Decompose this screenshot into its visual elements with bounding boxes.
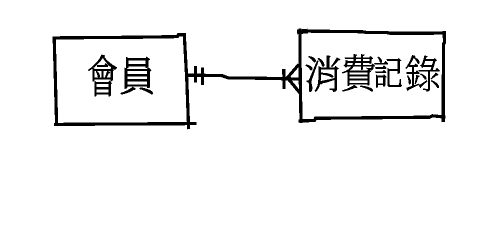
crow's foot lower prong (many)	[287, 78, 300, 93]
entity box: Member right edge	[184, 35, 188, 128]
entity box: Records top-left corner blob	[299, 29, 305, 34]
entity box: Member (left rectangle) top edge	[54, 35, 184, 38]
cardinality tick 1 (one, near Member)	[194, 66, 197, 82]
cardinality tick 2 (one, near Member)	[201, 68, 204, 85]
entity box: Member bottom edge	[56, 122, 195, 126]
text glyph 錄 lu in Records box	[406, 55, 440, 91]
entity box: Member left edge	[54, 38, 56, 124]
cardinality tick (one, near Records)	[282, 69, 285, 89]
text glyph 會 hui (member) in Member box	[89, 55, 117, 96]
entity box: Records (right rectangle) top edge	[300, 31, 445, 33]
entity box: Records bottom edge	[300, 116, 444, 121]
entity box: Records right edge	[443, 33, 444, 121]
entity box: Records left edge	[300, 30, 301, 121]
text glyph 費 fei in Records box	[342, 54, 374, 91]
text glyph 消 xiao in Records box	[306, 56, 340, 92]
text glyph 記 ji in Records box	[375, 57, 402, 87]
crow's foot upper prong (many)	[287, 65, 298, 78]
relationship wire: horizontal connector line with small jog	[188, 75, 299, 79]
text glyph 員 yuan (member) in Member box	[121, 57, 152, 94]
